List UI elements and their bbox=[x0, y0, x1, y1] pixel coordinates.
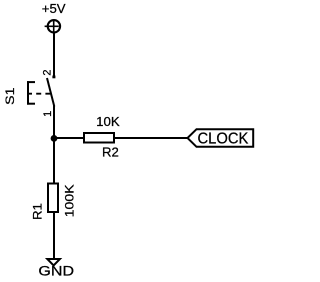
svg-text:R2: R2 bbox=[102, 146, 119, 160]
svg-text:10K: 10K bbox=[96, 114, 120, 129]
svg-text:R1: R1 bbox=[32, 203, 44, 220]
svg-text:2: 2 bbox=[42, 69, 54, 75]
net flag CLOCK bbox=[188, 129, 254, 147]
wire node to R2 bbox=[54, 137, 84, 139]
switch S1 lever bbox=[47, 78, 54, 107]
switch S1 actuator bracket bbox=[27, 81, 35, 104]
wire R1 to GND bbox=[53, 212, 55, 258]
svg-text:CLOCK: CLOCK bbox=[198, 130, 249, 147]
resistor R2 body bbox=[84, 133, 114, 143]
svg-text:100K: 100K bbox=[62, 183, 76, 217]
pin end tick (pin 2) bbox=[52, 76, 55, 79]
wire switch pin 1 to node bbox=[53, 106, 55, 141]
svg-text:S1: S1 bbox=[3, 87, 17, 105]
switch S1 actuator dashed link bbox=[27, 93, 51, 95]
power symbol +5V (circle with plus) bbox=[45, 20, 61, 32]
resistor R1 body bbox=[48, 184, 58, 213]
svg-text:+5V: +5V bbox=[42, 1, 66, 16]
wire R2 to CLOCK flag bbox=[114, 137, 189, 139]
junction node bbox=[51, 135, 58, 142]
ground symbol bbox=[47, 259, 60, 265]
svg-text:1: 1 bbox=[42, 111, 54, 117]
wire node to R1 bbox=[53, 138, 55, 184]
wire +5V to switch pin 2 bbox=[53, 33, 55, 78]
svg-text:GND: GND bbox=[38, 264, 74, 279]
